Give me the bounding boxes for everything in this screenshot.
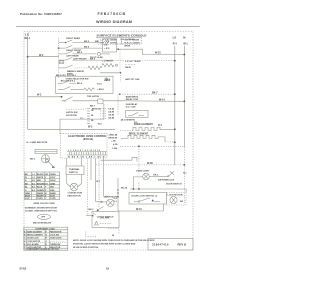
svg-text:B-1: B-1 — [32, 183, 35, 185]
svg-text:YELW: YELW — [50, 180, 56, 182]
notes paragraph — [73, 239, 155, 249]
svg-text:+ 2B: + 2B — [111, 141, 116, 143]
svg-text:LEFT FRONT: LEFT FRONT — [73, 58, 87, 60]
door lock switch box — [129, 193, 167, 205]
svg-text:BK/W 2B: BK/W 2B — [108, 138, 117, 140]
svg-text:W-2: W-2 — [88, 126, 93, 129]
svg-text:BR-2: BR-2 — [84, 41, 90, 43]
console table edges — [97, 38, 99, 45]
wire N bus solid — [183, 46, 185, 147]
svg-text:BK-5 OR-1 R-10 W-2: BK-5 OR-1 R-10 W-2 — [56, 75, 77, 77]
svg-text:EOC BOARD: EOC BOARD — [27, 243, 39, 246]
svg-text:4A 4B: 4A 4B — [108, 117, 114, 120]
svg-text:S7/02: S7/02 — [19, 266, 26, 270]
svg-text:BROIL ELEMENT: BROIL ELEMENT — [27, 235, 43, 237]
header rule — [16, 25, 200, 27]
wire relay to N y101 — [122, 100, 184, 103]
svg-text:REV B: REV B — [178, 242, 187, 246]
relay K1 texts above — [126, 95, 140, 101]
svg-text:BR-5: BR-5 — [90, 58, 96, 60]
svg-text:BK-34: BK-34 — [121, 186, 128, 189]
relay dashed vertical — [117, 94, 119, 116]
node L2 junction y60 — [174, 60, 176, 62]
connector pin strip A — [87, 109, 94, 124]
svg-text:VIOLT: VIOLT — [50, 177, 56, 179]
surface element box A — [103, 39, 117, 52]
wire light row dashed — [96, 164, 184, 166]
broil element coil — [121, 135, 162, 138]
svg-text:LOCK SW: LOCK SW — [50, 235, 59, 237]
svg-text:IN UNLOCKED POSITION.: IN UNLOCKED POSITION. — [73, 247, 99, 249]
main diagram dashed border — [24, 32, 193, 251]
svg-text:LATCH SW: LATCH SW — [66, 111, 78, 114]
svg-text:NOTE: DOOR LOCK SHOWN WITH OVE: NOTE: DOOR LOCK SHOWN WITH OVEN DOOR CLO… — [73, 239, 155, 242]
lock motor box — [167, 193, 187, 206]
node junction conv drop — [138, 188, 140, 190]
node junction conv — [138, 145, 140, 147]
svg-text:BK: BK — [52, 167, 56, 169]
svg-text:BK/WH: BK/WH — [37, 195, 44, 197]
svg-text:RELAY COM: RELAY COM — [126, 98, 139, 101]
svg-text:W-14: W-14 — [159, 99, 165, 102]
svg-text:COPR: COPR — [50, 198, 56, 200]
svg-text:R-1: R-1 — [158, 124, 163, 127]
svg-text:FEB27S6CB: FEB27S6CB — [98, 12, 126, 16]
wires mid verticals — [91, 158, 104, 207]
svg-text:FAN MOTOR: FAN MOTOR — [68, 194, 82, 197]
wire light left — [133, 177, 142, 189]
console dashed boundary — [58, 38, 60, 79]
svg-text:ANTI-TIP 1-BK: ANTI-TIP 1-BK — [125, 78, 140, 81]
node N junction light — [183, 164, 185, 166]
wire broil to L2 dashed — [162, 137, 175, 142]
svg-text:L-2: L-2 — [32, 177, 35, 179]
svg-text:+ COMPONENTS SHOWN IN OFF POS: + COMPONENTS SHOWN IN OFF POS — [25, 249, 60, 251]
wire color code table — [24, 172, 59, 205]
svg-text:SLVR: SLVR — [50, 195, 56, 197]
svg-text:OVEN LIGHT: OVEN LIGHT — [136, 170, 150, 172]
svg-text:TOD LATCH: TOD LATCH — [87, 95, 100, 98]
EOC bottom connector hatch — [67, 149, 107, 159]
oval stamp — [38, 214, 51, 219]
resistor left front element — [102, 61, 118, 67]
title block — [148, 239, 193, 251]
svg-text:DOOR LOCK: DOOR LOCK — [27, 238, 39, 240]
svg-text:SA INTERLOCK: SA INTERLOCK — [158, 179, 175, 182]
door lock left terminals — [114, 198, 118, 203]
console title underline — [96, 37, 142, 39]
pin label column — [108, 108, 114, 120]
latch switch texts — [66, 111, 78, 117]
svg-text:TAN: TAN — [50, 186, 54, 189]
switch S4 left front — [59, 58, 113, 61]
svg-text:N: N — [183, 36, 185, 40]
svg-text:BROWN: BROWN — [37, 183, 45, 185]
svg-text:BAKE: BAKE — [104, 79, 111, 82]
svg-text:DOOR SW: DOOR SW — [66, 115, 78, 117]
svg-text:GREEN: GREEN — [37, 190, 44, 192]
console switch rating table — [95, 40, 140, 45]
node L2 junction y94 — [174, 93, 176, 95]
svg-text:GRAY: GRAY — [50, 182, 56, 185]
svg-text:W-41: W-41 — [136, 208, 142, 211]
svg-text:W-2: W-2 — [37, 94, 42, 97]
svg-text:SWITCH: SWITCH — [69, 172, 78, 174]
node L2 terminal — [173, 36, 178, 46]
svg-text:A + L2/BK SEE NOTE: A + L2/BK SEE NOTE — [26, 141, 47, 144]
wire dashed mid — [86, 158, 88, 215]
wire L2 bus — [174, 46, 176, 165]
svg-text:OVEN LIGHT: OVEN LIGHT — [50, 238, 62, 240]
oven light bracket — [101, 157, 137, 161]
thermostat TOD box — [98, 99, 103, 104]
svg-text:DOOR SWITCH: DOOR SWITCH — [166, 183, 182, 185]
resistor warm and serve element — [88, 66, 102, 69]
console table divider — [121, 38, 123, 45]
wire lock bottom y211 — [118, 194, 163, 211]
switch latch — [97, 207, 114, 219]
svg-text:LATCH MOTOR: LATCH MOTOR — [104, 195, 120, 198]
connector pin strip B — [100, 109, 107, 119]
svg-text:BLACK: BLACK — [37, 173, 44, 176]
relay K1 texts below — [126, 103, 138, 109]
door lock motor assembly — [30, 149, 57, 169]
node junction y94 x120 — [119, 93, 121, 95]
node junction y49 — [117, 48, 119, 50]
svg-text:+ BR-8: + BR-8 — [97, 89, 104, 91]
svg-text:BROIL ELEMENT: BROIL ELEMENT — [129, 132, 149, 135]
motor convection fan — [68, 183, 83, 197]
wire row4 to L2 dashed — [113, 60, 175, 62]
switch S5 warm and serve — [59, 65, 88, 76]
switch door light — [158, 171, 187, 185]
svg-text:N.O. COM: N.O. COM — [126, 107, 136, 109]
node junction y189 — [133, 188, 135, 190]
svg-text:6-8": 6-8" — [104, 45, 108, 47]
node junction L1/y57 — [27, 56, 29, 58]
switch S3 left rear — [59, 51, 110, 59]
svg-text:BK-2: BK-2 — [30, 158, 36, 160]
svg-text:FAN MOTOR: FAN MOTOR — [50, 231, 62, 234]
switch S1 right rear — [59, 37, 103, 43]
node L1 terminal — [25, 33, 31, 41]
svg-text:GY/PK: GY/PK — [37, 198, 44, 200]
svg-text:BK: BK — [180, 201, 184, 203]
svg-text:B-2: B-2 — [32, 187, 35, 189]
svg-text:+ L.FRONT: + L.FRONT — [102, 61, 114, 63]
svg-text:THERM SW: THERM SW — [50, 244, 61, 246]
svg-text:PINK: PINK — [50, 190, 55, 192]
svg-text:RED: RED — [37, 180, 42, 182]
motor latch — [96, 195, 120, 206]
svg-text:4A COM BK/W: 4A COM BK/W — [121, 119, 135, 122]
component code table — [24, 227, 68, 251]
svg-text:SURFACE ELEMENTS-CONSOLE: SURFACE ELEMENTS-CONSOLE — [97, 34, 147, 38]
wire light right — [149, 176, 165, 178]
svg-text:W-2: W-2 — [39, 54, 44, 57]
wire y72.8 junction — [100, 72, 121, 82]
svg-text:(EOC-B): (EOC-B) — [83, 137, 93, 141]
svg-text:WIRE COLOR CODE: WIRE COLOR CODE — [34, 203, 56, 205]
svg-text:WHITE: WHITE — [37, 177, 44, 179]
wire L1 tee y97 — [28, 96, 62, 98]
svg-text:W-31: W-31 — [155, 52, 161, 55]
svg-text:BR-6: BR-6 — [84, 46, 90, 48]
wire L1 to console y57 — [28, 56, 59, 58]
console rating table — [117, 39, 143, 47]
svg-text:THERMAL: THERMAL — [69, 168, 80, 171]
svg-text:4-1B: 4-1B — [113, 143, 118, 146]
svg-text:L-BK: L-BK — [112, 148, 117, 150]
dashed fragment below — [86, 229, 119, 237]
svg-text:RIGHT REAR: RIGHT REAR — [66, 37, 80, 40]
wire L1 bottom corner to EOC — [28, 128, 115, 130]
svg-text:R-4: R-4 — [173, 43, 178, 46]
svg-text:L2: L2 — [173, 36, 177, 40]
wire bake to L2 — [162, 128, 175, 130]
svg-text:LOCK MOTOR: LOCK MOTOR — [168, 194, 183, 196]
connector P-1 tag — [59, 61, 64, 65]
svg-text:Publication No. 5995443807: Publication No. 5995443807 — [20, 12, 62, 16]
svg-text:L.F. 6-8" 1500W: L.F. 6-8" 1500W — [125, 61, 140, 63]
thermal switch box — [66, 166, 84, 175]
svg-text:BR-3: BR-3 — [77, 52, 83, 54]
svg-text:BK-7: BK-7 — [90, 106, 96, 108]
door latch instruction box — [86, 212, 119, 228]
dashed link row — [66, 108, 86, 110]
svg-text:J: J — [46, 241, 47, 243]
EOC pin labels right — [108, 134, 118, 151]
svg-text:1A 1B: 1A 1B — [108, 108, 114, 111]
wire pins vertical — [117, 178, 119, 189]
wire dashed drop x120 — [119, 49, 121, 73]
svg-text:BLUE: BLUE — [37, 187, 43, 189]
svg-text:B-3: B-3 — [32, 190, 35, 192]
terminal circles left — [117, 189, 119, 194]
element rating text right — [125, 61, 140, 69]
svg-text:OR-3: OR-3 — [153, 175, 159, 177]
svg-text:WIRING DIAGRAM: WIRING DIAGRAM — [96, 20, 132, 24]
svg-text:POSITION. LATCH SWITCH SHOWN W: POSITION. LATCH SWITCH SHOWN WITH DOOR C… — [73, 242, 136, 245]
wire relay to L2 dashed y94 — [120, 93, 175, 95]
node N terminal — [183, 36, 188, 46]
svg-text:BK-2: BK-2 — [89, 209, 95, 211]
svg-text:SCHEMATIC SHOWN WITH DOOR: SCHEMATIC SHOWN WITH DOOR — [25, 207, 58, 210]
svg-text:W: W — [25, 177, 27, 179]
svg-text:L-1: L-1 — [32, 174, 35, 176]
wire lock row y189 — [130, 189, 186, 193]
notes text left — [25, 207, 58, 213]
switch oven latch — [62, 97, 98, 102]
svg-text:LTD-HTR: LTD-HTR — [100, 217, 110, 219]
svg-text:W BK R OR V BR Y BK W: W BK R OR V BR Y BK W — [68, 157, 105, 159]
svg-text:OFF: OFF — [41, 217, 46, 219]
svg-text:+RED 4B: +RED 4B — [108, 134, 117, 137]
lamp oven light — [136, 170, 150, 180]
svg-text:SEE NOTE BELOW: SEE NOTE BELOW — [33, 222, 51, 224]
oven selector box — [56, 76, 113, 93]
svg-text:BK/W: BK/W — [25, 195, 30, 197]
svg-text:BK-8: BK-8 — [77, 83, 83, 85]
svg-text:DLB RELAY: DLB RELAY — [126, 103, 138, 106]
wire conv drop dashed — [138, 146, 140, 173]
wire tod drop — [60, 104, 104, 134]
svg-text:WARM & SERVE: WARM & SERVE — [67, 70, 85, 73]
svg-text:LEFT REAR: LEFT REAR — [66, 55, 79, 58]
svg-text:CLOSED, SWITCHES IN OFF POS.: CLOSED, SWITCHES IN OFF POS. — [25, 211, 58, 213]
relay texts below box — [121, 119, 139, 124]
svg-text:BAKE ELEMENT: BAKE ELEMENT — [134, 123, 153, 126]
svg-text:2A 2B: 2A 2B — [108, 111, 114, 114]
svg-text:BK/W: BK/W — [125, 46, 131, 48]
svg-text:GY/P: GY/P — [25, 198, 30, 200]
bake element coil — [120, 127, 162, 130]
svg-text:W-36: W-36 — [147, 162, 153, 165]
svg-text:318047410: 318047410 — [152, 242, 169, 246]
node terminal y97 — [61, 96, 63, 98]
wire N bus dashed — [183, 147, 185, 204]
svg-text:+ L.R.: + L.R. — [104, 41, 110, 43]
svg-text:W-1: W-1 — [183, 43, 188, 46]
svg-text:BK-7: BK-7 — [152, 91, 158, 94]
svg-text:BAKE ELEMENT: BAKE ELEMENT — [27, 231, 43, 234]
switch S2 right front — [58, 46, 103, 53]
svg-text:ORNG: ORNG — [50, 174, 56, 176]
svg-text:BK/W: BK/W — [125, 67, 131, 69]
svg-text:L.R. 6" 1500W: L.R. 6" 1500W — [121, 39, 135, 41]
svg-text:DOOR LOCK SWITCH +2: DOOR LOCK SWITCH +2 — [132, 196, 158, 198]
node N junction y54 — [183, 54, 185, 56]
wire box A to N drop — [117, 49, 185, 54]
wires EOC to fan — [67, 158, 82, 187]
node L2 junction broil — [174, 141, 176, 143]
svg-text:N-1: N-1 — [32, 180, 35, 182]
relay K2 box — [126, 110, 148, 117]
wire conv to N dashed y146 — [120, 145, 184, 147]
svg-text:+ R.F.: + R.F. — [104, 48, 110, 50]
node L2 junction bake — [174, 128, 176, 130]
electronic oven control dashed box — [61, 133, 108, 158]
svg-text:3A 3B: 3A 3B — [108, 114, 114, 117]
svg-text:CONVECTION: CONVECTION — [68, 193, 83, 195]
wire tod to relay — [103, 100, 122, 102]
svg-text:CONV MOTOR: CONV MOTOR — [27, 241, 41, 243]
node N junction y101 — [183, 100, 185, 102]
wire L1 vertical bus — [27, 37, 29, 130]
